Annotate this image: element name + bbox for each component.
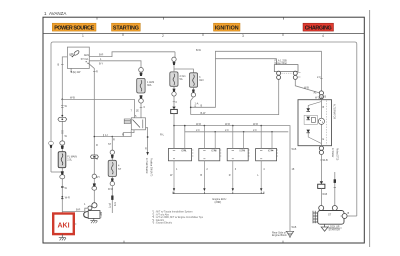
svg-text:[: [: [99, 213, 101, 214]
wire battery feed right: [62, 99, 134, 117]
svg-text:IGT1: IGT1: [181, 150, 187, 153]
alternator feed label: [320, 78, 322, 80]
svg-text:R: R: [229, 174, 231, 177]
ST connector dark: [111, 196, 113, 200]
svg-text:5A: 5A: [180, 78, 183, 81]
relay pin labels: [131, 110, 140, 118]
svg-text:W-R: W-R: [225, 123, 230, 126]
svg-text:W-R: W-R: [253, 123, 258, 126]
label 2W: [70, 71, 81, 74]
svg-text:R: R: [113, 139, 115, 142]
wire ST horizontal: [94, 130, 131, 136]
coil bus1: [174, 126, 290, 232]
svg-text:to Park/Neutral: to Park/Neutral: [145, 158, 148, 174]
svg-text:ST: ST: [118, 168, 122, 171]
svg-text:W-R: W-R: [65, 197, 70, 200]
svg-text:IGN: IGN: [199, 79, 204, 82]
svg-text:Engine Block: Engine Block: [272, 234, 287, 237]
svg-text:Relay (ST2): Relay (ST2): [336, 148, 338, 160]
svg-text:2.0: 2.0: [253, 129, 257, 132]
svg-text:R-L: R-L: [160, 134, 165, 137]
svg-text:CHARGING: CHARGING: [305, 26, 332, 32]
svg-text:ST: ST: [328, 214, 332, 217]
bottom frame ticks: [124, 241, 283, 243]
wire battery column: [61, 99, 63, 214]
fuse AM2: [137, 78, 145, 93]
connector below FL: [60, 171, 65, 179]
relay ST coil: [124, 119, 130, 124]
svg-text:1: 1: [82, 34, 84, 38]
svg-text:3: 3: [242, 34, 244, 38]
section numbers: [82, 34, 324, 38]
wire IG1 to bus: [173, 114, 175, 149]
ignition coil IC1: [168, 126, 193, 192]
ground battery: [59, 234, 66, 240]
connector above ST fuse: [110, 150, 114, 158]
svg-text:4: 4: [322, 34, 324, 38]
battery AKI box: [53, 214, 76, 235]
ignition coil IC3: [227, 126, 249, 192]
junction ST fuse: [112, 136, 114, 138]
svg-text:2.0: 2.0: [196, 129, 200, 132]
svg-text:B-R: B-R: [76, 209, 81, 212]
branch to fuse3: [174, 69, 193, 73]
svg-text:W-R: W-R: [196, 123, 201, 126]
ground starter: [321, 224, 328, 231]
junction dots bus3: [260, 125, 262, 127]
relay output wire: [146, 128, 148, 153]
header IGNITION: [214, 23, 241, 31]
fuse ST: [108, 160, 116, 176]
wire AM2: [89, 61, 141, 68]
page-link component charging: [318, 181, 325, 188]
svg-text:R: R: [145, 148, 147, 151]
connector on left bus: [49, 141, 54, 145]
svg-text:STARTING: STARTING: [113, 26, 139, 32]
svg-text:(A/T): (A/T): [108, 203, 111, 208]
wire to starter S: [62, 208, 87, 211]
ignition coil IC2: [199, 126, 221, 192]
wire IGN down: [191, 97, 194, 115]
svg-text:R: R: [122, 134, 124, 137]
top frame ticks: [97, 17, 284, 19]
svg-text:W-B: W-B: [70, 97, 75, 100]
svg-text:to Starter: to Starter: [331, 148, 334, 158]
fuse IG1: [170, 72, 178, 86]
wire noise filter upper branch: [215, 59, 276, 65]
svg-text:2.0: 2.0: [317, 76, 321, 79]
header separator: [43, 32, 364, 34]
svg-text:30A: 30A: [147, 84, 152, 87]
fusible link FL MAIN: [58, 152, 66, 168]
connector below ST fuse: [110, 178, 114, 185]
svg-text:B-R: B-R: [99, 53, 104, 56]
svg-text:1 AVANZA: 1 AVANZA: [44, 11, 66, 16]
svg-text:IGT2: IGT2: [211, 150, 217, 153]
junction dots bus: [204, 125, 206, 127]
svg-text:B-W: B-W: [201, 112, 207, 115]
svg-text:ST IG1: ST IG1: [81, 58, 90, 61]
relay ST contact box: [131, 118, 145, 130]
svg-text:W-B: W-B: [323, 159, 328, 162]
svg-text:R-W: R-W: [108, 188, 114, 191]
connector pair alternator bottom: [319, 146, 323, 154]
connector above IG1 fuse: [174, 52, 176, 58]
relay ST input step: [123, 130, 134, 137]
svg-text:ALTERNATOR: ALTERNATOR: [332, 104, 335, 119]
ground engine block: [272, 226, 297, 238]
svg-text:W-B: W-B: [304, 87, 309, 90]
connector below IGN: [191, 90, 195, 98]
switch bottom pin: [70, 68, 72, 71]
svg-text:(E) 2W: (E) 2W: [73, 71, 81, 74]
connector below IG1: [172, 89, 176, 97]
connector below AM2: [139, 95, 144, 103]
svg-text:ST2: ST2: [113, 202, 115, 207]
wire noise filter branch: [191, 51, 322, 107]
wire main bus top: [51, 42, 357, 216]
svg-text:2.0L: 2.0L: [67, 158, 72, 161]
starter motor: [313, 206, 350, 232]
svg-text:W-B: W-B: [322, 193, 327, 196]
junction starter branch: [61, 196, 63, 198]
coil bus2: [185, 126, 288, 132]
svg-text:ST: ST: [108, 143, 112, 146]
wire tick labels: [61, 130, 64, 132]
svg-text:B-Y: B-Y: [99, 63, 104, 66]
battery terminal connector: [58, 115, 67, 122]
svg-text:B-W: B-W: [196, 49, 202, 52]
AM2 fuse column connector: [139, 68, 144, 77]
pin tick: [61, 63, 64, 65]
svg-text:STARTER: STARTER: [329, 229, 341, 232]
svg-text:2: 2: [162, 34, 164, 38]
svg-text:*5 : Except Electric: *5 : Except Electric: [152, 222, 173, 225]
ECU bracket: [173, 192, 264, 194]
ticks labels: [61, 105, 64, 107]
ST fuse column: [111, 137, 113, 214]
starter small M/T: [84, 137, 102, 224]
header CHARGING: [303, 23, 334, 31]
svg-text:POWER SOURCE: POWER SOURCE: [54, 26, 94, 32]
svg-text:Position SW (A/T): Position SW (A/T): [150, 158, 153, 176]
wire ST diagonal: [89, 63, 95, 136]
svg-text:R: R: [96, 71, 98, 74]
page side line: [369, 10, 371, 247]
junction lower: [61, 186, 64, 188]
svg-text:AKI: AKI: [57, 223, 69, 230]
wire coil feed: [191, 80, 279, 115]
alternator box: [298, 97, 335, 146]
wire AM1: [89, 52, 175, 57]
connector above FL: [60, 141, 65, 149]
wire noise filter right down: [295, 79, 321, 93]
svg-text:2.0: 2.0: [225, 129, 229, 132]
svg-text:W 2.0B: W 2.0B: [315, 97, 324, 100]
svg-text:1H: 1H: [96, 176, 99, 179]
header POWER SOURCE: [52, 23, 96, 31]
wire IG1 down: [173, 96, 175, 107]
frame border: [43, 17, 364, 243]
noise filter block: [274, 60, 300, 80]
misc wire labels: [65, 101, 297, 206]
wire AM2 to relay: [140, 103, 142, 118]
svg-text:(2NR): (2NR): [215, 201, 222, 204]
svg-text:1E: 1E: [136, 110, 139, 113]
separator ticks: [123, 33, 283, 36]
wire left bus bottom join: [51, 171, 62, 173]
svg-text:AM: AM: [69, 53, 73, 56]
header STARTING: [112, 23, 141, 31]
ignition coil IC4: [256, 126, 278, 192]
svg-text:AM1: AM1: [84, 54, 90, 57]
fuse IGN no3: [189, 73, 197, 87]
wire starter B to bus: [347, 215, 357, 217]
legend notes: [152, 211, 204, 225]
svg-text:IGNITION: IGNITION: [215, 26, 239, 32]
svg-text:R: R: [96, 144, 98, 147]
svg-text:IGT4: IGT4: [268, 150, 274, 153]
svg-text:IGT3: IGT3: [239, 150, 245, 153]
wire AM: [62, 57, 67, 100]
connector pair alternator top: [314, 91, 327, 99]
svg-text:W-B: W-B: [292, 148, 297, 151]
svg-text:W-B: W-B: [292, 226, 297, 229]
ignition switch SW1: [67, 47, 89, 68]
starter S stub: [331, 148, 337, 206]
page-link component IG: [171, 107, 178, 114]
junction dots bus2: [232, 125, 234, 127]
junction battery top: [61, 99, 63, 101]
wire alternator ground: [320, 155, 322, 182]
